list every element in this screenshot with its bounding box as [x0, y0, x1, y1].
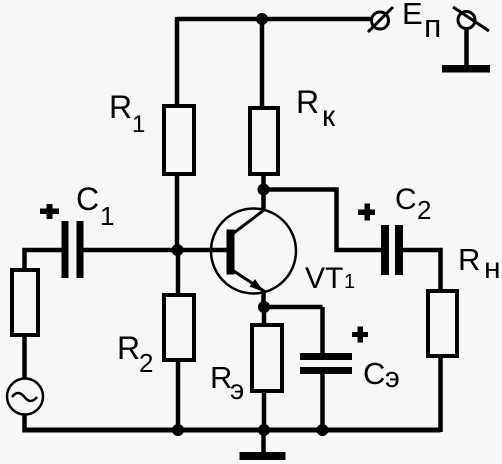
resistor Rk	[250, 108, 278, 174]
terminal right	[453, 7, 489, 31]
svg-text:C: C	[395, 183, 417, 216]
wire generator to bottom rail	[22, 414, 27, 432]
transistor VT1	[211, 194, 296, 308]
wire Rk top lead	[260, 19, 265, 106]
label VT1	[305, 262, 355, 295]
svg-text:R: R	[296, 84, 319, 120]
node top junction	[256, 13, 268, 25]
label En	[402, 0, 441, 44]
svg-text:C: C	[363, 356, 385, 391]
label C1	[76, 181, 114, 231]
label C2	[395, 183, 431, 225]
svg-text:н: н	[484, 252, 501, 285]
wire base to R2	[176, 250, 181, 293]
wire top rail	[177, 17, 371, 22]
resistor R2	[164, 295, 194, 360]
label Rn	[458, 242, 501, 285]
resistor R1	[164, 106, 194, 174]
label R1	[109, 89, 145, 138]
svg-text:к: к	[322, 100, 336, 133]
capacitor C2	[381, 225, 403, 275]
wire collector to C2	[264, 190, 382, 251]
resistor Re	[252, 325, 282, 391]
svg-text:1: 1	[344, 271, 355, 293]
svg-text:R: R	[458, 242, 480, 277]
wire Ce top stub	[320, 307, 325, 353]
svg-text:п: п	[424, 8, 441, 44]
node base junction	[172, 244, 184, 256]
svg-text:2: 2	[417, 195, 431, 225]
svg-text:E: E	[402, 0, 423, 31]
wire source to C1	[23, 248, 63, 253]
label Ce	[363, 356, 400, 394]
svg-text:VT: VT	[305, 262, 343, 295]
wire source box to generator	[22, 337, 27, 379]
svg-text:R: R	[117, 330, 140, 366]
wire C2 to Rn	[403, 250, 441, 289]
wire R1 bottom lead	[175, 176, 180, 252]
capacitor C1	[62, 221, 84, 278]
node collector junction	[258, 184, 270, 196]
label plus C2	[358, 204, 375, 221]
node R2 bottom junction	[172, 424, 184, 436]
label plus Ce	[352, 327, 368, 343]
label plus C1	[40, 204, 59, 219]
svg-text:1: 1	[100, 201, 114, 231]
wire Ce bottom stub	[320, 374, 325, 430]
wire Rn bottom lead	[438, 358, 443, 432]
svg-text:C: C	[76, 181, 99, 217]
label R2	[117, 330, 153, 378]
wire Rk bottom stub	[261, 176, 266, 189]
resistor Rn	[428, 291, 457, 356]
generator G1	[7, 379, 43, 415]
wire C1 to base	[84, 248, 228, 253]
svg-text:э: э	[385, 362, 400, 394]
svg-text:э: э	[230, 374, 244, 405]
node Ce bottom junction	[317, 424, 329, 436]
node emitter junction	[258, 301, 270, 313]
wire Re bottom lead	[262, 393, 267, 430]
wire R1 top lead	[175, 17, 180, 104]
source resistor box	[12, 270, 38, 335]
wire C1 to source box	[22, 248, 27, 268]
capacitor Ce	[300, 353, 352, 374]
terminal left	[368, 7, 393, 32]
wire bottom rail	[23, 428, 441, 433]
ground bar top right	[442, 65, 490, 73]
svg-text:2: 2	[139, 348, 153, 378]
wire Re top lead	[262, 308, 267, 323]
node Re bottom junction	[258, 424, 270, 436]
label Rk	[296, 84, 336, 133]
wire right terminal to ground	[464, 28, 469, 65]
svg-text:R: R	[109, 89, 132, 125]
svg-text:1: 1	[132, 111, 145, 138]
label Re	[210, 360, 244, 405]
wire emitter to Ce	[264, 305, 323, 310]
wire R2 bottom lead	[176, 362, 181, 430]
ground bottom	[240, 430, 286, 460]
